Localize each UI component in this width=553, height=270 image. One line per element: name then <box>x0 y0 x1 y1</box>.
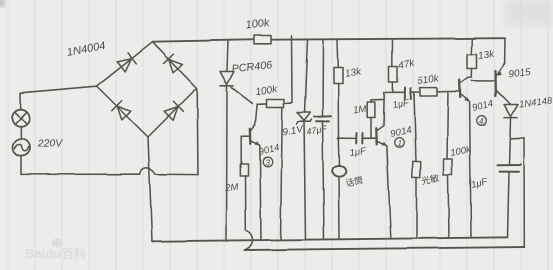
svg-text:3: 3 <box>265 159 270 168</box>
resistor R10 13k <box>467 55 477 69</box>
wire: AC return with hop over bridge-bottom line <box>21 173 140 175</box>
resistor R7 510k <box>420 88 459 96</box>
resistor R5 1M (feedback) <box>367 100 384 139</box>
wire: Q3 emitter to ground bus <box>470 102 471 238</box>
thyristor U1 PCR406 anode wire <box>227 40 228 72</box>
resistor R9 100k (base pulldown) wire <box>447 92 448 160</box>
capacitor C3 1uF (interstage coupling) <box>405 88 420 99</box>
svg-text:220V: 220V <box>37 137 64 150</box>
label circled 3 <box>263 157 273 167</box>
svg-text:2M: 2M <box>224 182 239 194</box>
wire: collector node to C3 <box>393 91 405 93</box>
wire: zener anode to ground bus <box>304 121 306 239</box>
resistor R6 47k feed wire <box>391 39 393 67</box>
node: mic junction <box>337 137 340 140</box>
capacitor C4 1uF (output store) <box>498 139 522 237</box>
wire: top bus from bridge top to upper-right corner <box>153 38 506 42</box>
wire: R4 to mic node <box>337 84 339 139</box>
svg-text:1: 1 <box>398 139 402 148</box>
diode D4 (bridge, bottom-right edge) <box>164 102 184 122</box>
photoresistor R8 <box>412 161 421 238</box>
resistor R2 100k (gate pull-up) <box>258 36 292 107</box>
wire: C1 to ground bus <box>323 121 325 239</box>
transistor Q3 9014 <box>460 77 472 102</box>
resistor R3 2M <box>240 136 248 230</box>
bridge rectifier: diamond wires <box>97 42 198 137</box>
wire: signal bus (lower bottom rail) <box>245 247 525 250</box>
wire: mic node to coupling cap <box>339 137 357 139</box>
transistor Q1 9014 <box>241 104 260 145</box>
wire: Q2 emitter to ground bus <box>387 146 391 239</box>
wire: ground bus (upper bottom rail) <box>152 237 508 241</box>
transistor Q4 9015 (PNP) <box>495 38 511 104</box>
capacitor C1 47uF feed wire <box>322 40 325 117</box>
wire: Q3 collector node to Q4 base <box>471 80 494 82</box>
capacitor C2 1uF (mic coupling) <box>356 133 376 144</box>
resistor R1 100k (series dropper in top bus) <box>254 36 271 44</box>
svg-text:百科: 百科 <box>62 246 86 261</box>
wire: diode node right and down to signal bus <box>511 138 525 247</box>
wire: R6 to collector node <box>384 82 393 93</box>
thyristor U1 PCR406 <box>220 72 253 104</box>
transistor Q2 9014 <box>376 93 387 146</box>
AC source 220V (circle with sine) <box>13 139 30 156</box>
diode D1 (bridge, left-top edge) <box>117 52 136 71</box>
wire: Q1 emitter to ground bus <box>260 145 261 239</box>
resistor R6 47k <box>389 67 398 83</box>
label circled 1 <box>395 138 405 148</box>
wire: R10 to Q3 collector node <box>470 69 472 78</box>
resistor R10 13k feed wire <box>470 39 473 55</box>
resistor R4 13k <box>334 68 343 84</box>
diode D5 1N4148 <box>504 105 518 140</box>
resistor R9 100k <box>444 159 453 238</box>
wire: bridge bottom vertex down to ground bus <box>148 137 152 241</box>
svg-text:Baidu: Baidu <box>25 246 61 261</box>
wire: SCR cathode to ground bus <box>226 87 229 241</box>
microphone MIC <box>332 138 346 239</box>
zener D6 9.1V <box>297 112 312 124</box>
diode D3 (bridge, bottom-left edge) <box>112 101 132 121</box>
wire: bridge right vertex down to AC return <box>196 89 199 175</box>
svg-text:1M: 1M <box>353 104 367 116</box>
wire: from R2 box corner down to ground bus <box>281 107 283 239</box>
lamp EL (circle with X) <box>12 93 30 127</box>
label circled 4 <box>477 116 487 126</box>
diode D2 (bridge, top-right edge) <box>164 54 184 74</box>
svg-text:4: 4 <box>479 117 484 126</box>
resistor R8 photoresistor pulldown wire <box>414 92 416 161</box>
wire: 2M hop over ground bus onto signal bus <box>245 230 253 250</box>
zener D6 9.1V feed wire <box>305 40 308 113</box>
watermark Baidu <box>25 239 86 262</box>
wire: lamp feed, bridge left vertex to left column <box>21 86 97 93</box>
resistor R4 13k (mic bias) feed wire <box>336 40 339 68</box>
wire: lamp to AC source <box>20 127 22 139</box>
wire: AC source down to return bus <box>20 156 22 174</box>
capacitor C1 47uF <box>314 116 331 122</box>
